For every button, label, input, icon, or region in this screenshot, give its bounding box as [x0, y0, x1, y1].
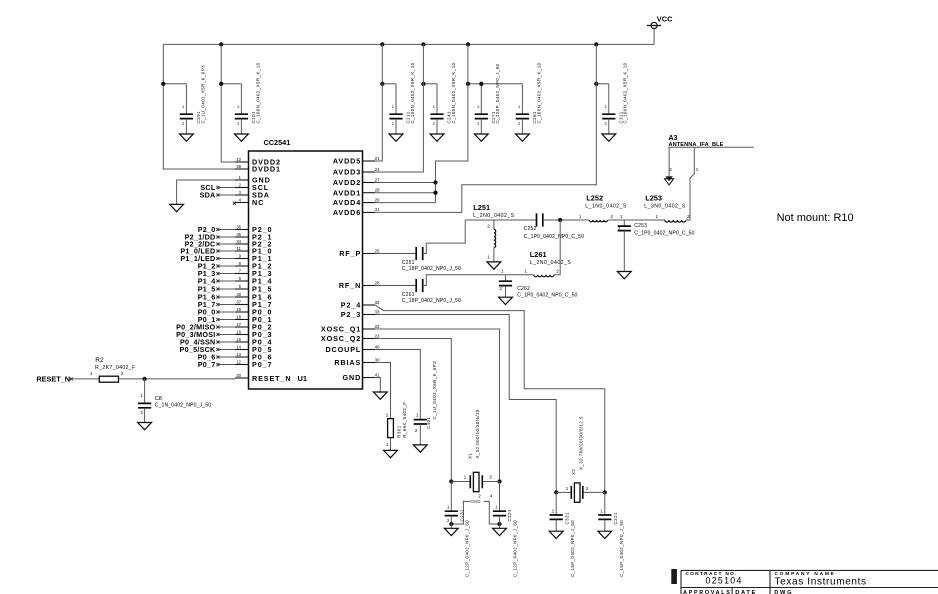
- svg-text:RF_N: RF_N: [339, 281, 361, 290]
- svg-text:P2_4: P2_4: [341, 301, 361, 310]
- wire AVDD3 to bus: [375, 44, 423, 172]
- ground C241: [430, 134, 444, 141]
- wire DVDD1 net: [163, 44, 235, 169]
- svg-text:AVDD5: AVDD5: [333, 157, 361, 166]
- wire: [144, 379, 146, 404]
- wire pin 4 stub: [235, 202, 249, 204]
- svg-text:C_1P0_0402_NP0_C_50: C_1P0_0402_NP0_C_50: [524, 234, 584, 240]
- svg-text:22: 22: [375, 324, 380, 329]
- junction C281 tap: [479, 82, 483, 86]
- svg-text:GND: GND: [471, 499, 481, 504]
- svg-text:25: 25: [375, 248, 380, 253]
- svg-text:29: 29: [375, 197, 380, 202]
- inductor L252: [589, 220, 607, 222]
- wire tap to C211: [382, 83, 396, 85]
- svg-text:CC2541: CC2541: [264, 138, 291, 147]
- wire: [480, 84, 482, 114]
- wire AVDD6 to bus: [375, 44, 596, 212]
- wire: [499, 482, 501, 512]
- svg-text:C_12P_0402_NP0_J_50: C_12P_0402_NP0_J_50: [464, 520, 469, 577]
- wire pin 34 stub: [235, 243, 249, 245]
- wire DVDD2 net: [221, 44, 235, 162]
- wire: [480, 119, 482, 134]
- svg-text:Texas Instruments: Texas Instruments: [775, 576, 867, 587]
- junction C271 tap: [466, 82, 470, 86]
- svg-text:NC: NC: [252, 198, 264, 207]
- junction bus/C311 drop: [594, 42, 598, 46]
- wire pin 18 stub: [235, 319, 249, 321]
- junction C8 tap: [142, 377, 146, 381]
- wire: [395, 84, 397, 114]
- inductor L253: [665, 220, 686, 222]
- wire: [521, 84, 523, 114]
- svg-text:C_1P0_0402_NP0_C_50: C_1P0_0402_NP0_C_50: [634, 230, 694, 236]
- svg-text:C331: C331: [564, 512, 569, 525]
- wire L261 up to mid node: [554, 220, 560, 275]
- junction bus/C101 drop: [219, 42, 223, 46]
- ground C391: [180, 134, 194, 141]
- wire pin 20 stub: [235, 377, 249, 379]
- svg-text:DCOUPL: DCOUPL: [325, 345, 361, 354]
- svg-text:L_2N0_0402_S: L_2N0_0402_S: [530, 260, 572, 266]
- ground chip pin41: [373, 392, 387, 399]
- inductor L261: [534, 275, 554, 277]
- svg-text:C251: C251: [402, 260, 415, 266]
- svg-text:C261: C261: [402, 292, 415, 298]
- wire tap to C101: [221, 83, 241, 85]
- wire pin 40 stub: [363, 349, 376, 351]
- svg-text:L_2N0_0402_S: L_2N0_0402_S: [473, 213, 515, 219]
- svg-text:31: 31: [375, 207, 380, 212]
- wire pin 7 stub: [235, 273, 249, 275]
- wire: [493, 248, 495, 262]
- svg-text:11: 11: [237, 246, 242, 251]
- junction C241 tap: [421, 82, 425, 86]
- wire pin 28 stub: [363, 192, 376, 194]
- junction X2 pin1 node: [554, 490, 558, 494]
- wire pin 33 stub: [363, 314, 376, 316]
- svg-text:C221: C221: [507, 509, 512, 522]
- wire pin 12 stub: [235, 364, 249, 366]
- svg-text:VCC: VCC: [657, 15, 673, 24]
- ground chip pin1: [170, 204, 184, 211]
- svg-text:L_3N0_0402_S: L_3N0_0402_S: [644, 204, 686, 210]
- ground L251: [487, 262, 501, 269]
- svg-text:DVDD1: DVDD1: [252, 165, 281, 174]
- wire: [395, 119, 397, 134]
- wire AVDD2/1/4 to bus: [436, 44, 468, 202]
- ground C101: [235, 134, 249, 141]
- svg-text:24: 24: [375, 167, 380, 172]
- svg-text:C_1U_0402_X5R_K_6P3: C_1U_0402_X5R_K_6P3: [200, 65, 205, 124]
- capacitor C211: [389, 114, 402, 118]
- wire: [450, 482, 452, 512]
- svg-text:RBIAS: RBIAS: [334, 358, 361, 367]
- svg-text:23: 23: [375, 333, 380, 338]
- wire C261 to L261: [423, 275, 534, 286]
- svg-text:X2: X2: [571, 469, 576, 475]
- wire VCC top bus: [163, 43, 654, 45]
- wire: [436, 84, 438, 114]
- wire: [604, 519, 606, 531]
- wire pin 19 stub: [235, 311, 249, 313]
- svg-text:R2: R2: [95, 357, 104, 364]
- wire XOSC_Q2 to X1: [375, 339, 451, 482]
- svg-text:A3: A3: [669, 135, 678, 142]
- wire: [493, 220, 495, 229]
- wire GND41: [375, 378, 380, 393]
- svg-text:C_100N_0402_X5R_K_10: C_100N_0402_X5R_K_10: [451, 62, 456, 123]
- svg-text:GND: GND: [343, 373, 362, 382]
- wire pin 2 stub: [235, 187, 249, 189]
- wire AVDD5 to bus: [375, 44, 382, 161]
- svg-text:C_18P_0402_NP0_J_50: C_18P_0402_NP0_J_50: [402, 266, 461, 272]
- svg-text:C_100N_0402_X5R_K_10: C_100N_0402_X5R_K_10: [410, 62, 415, 123]
- wire pin 17 stub: [235, 326, 249, 328]
- wire: [390, 438, 392, 451]
- svg-text:12: 12: [236, 359, 241, 364]
- wire pin 3 stub: [235, 194, 249, 196]
- svg-text:C8: C8: [155, 396, 162, 402]
- junction C221 gnd: [497, 522, 501, 526]
- ground C401: [413, 445, 427, 452]
- capacitor C401: [414, 420, 427, 424]
- wire balun rail: [465, 219, 536, 221]
- svg-text:XOSC_Q1: XOSC_Q1: [321, 325, 361, 334]
- svg-text:C_15P_0402_NP0_J_50: C_15P_0402_NP0_J_50: [570, 520, 575, 577]
- wire X2 leads: [556, 491, 605, 493]
- wire: [555, 492, 557, 515]
- wire: [623, 220, 625, 226]
- ground C253: [617, 272, 631, 279]
- wire tap to C391: [163, 83, 186, 85]
- svg-text:27: 27: [375, 177, 380, 182]
- ground C262: [499, 297, 513, 304]
- svg-text:C_15P_0402_NP0_J_50: C_15P_0402_NP0_J_50: [619, 520, 624, 577]
- wire RF_P to C251: [375, 253, 416, 255]
- svg-text:Not mount: R10: Not mount: R10: [777, 212, 854, 224]
- svg-text:L_1N0_0402_S: L_1N0_0402_S: [585, 204, 627, 210]
- svg-text:L261: L261: [530, 250, 547, 259]
- wire pin 8 stub: [235, 265, 249, 267]
- capacitor C241: [430, 114, 443, 118]
- svg-text:33: 33: [375, 309, 380, 314]
- svg-text:17: 17: [236, 322, 241, 327]
- wire tap to C241: [423, 83, 437, 85]
- wire tap to C311: [596, 83, 609, 85]
- wire: [604, 492, 606, 515]
- wire GND pin1: [177, 180, 235, 204]
- wire P2_3 to X2: [375, 315, 556, 493]
- ground antenna (arrow style): [666, 177, 672, 181]
- wire XOSC_Q1 to X1: [375, 329, 499, 482]
- wire pin 36 stub: [235, 229, 249, 231]
- svg-text:L253: L253: [645, 193, 662, 202]
- power symbol VCC: [651, 22, 657, 28]
- wire pin 16 stub: [235, 334, 249, 336]
- junction C391 tap: [161, 82, 165, 86]
- wire pin 31 stub: [363, 211, 376, 213]
- wire pin 14 stub: [235, 349, 249, 351]
- wire pin 24 stub: [363, 171, 376, 173]
- svg-text:28: 28: [375, 188, 380, 193]
- wire: [419, 424, 421, 445]
- wire pin 1 stub: [235, 179, 249, 181]
- svg-text:RESET_N: RESET_N: [36, 375, 70, 384]
- svg-text:16: 16: [236, 329, 241, 334]
- capacitor C251: [416, 247, 423, 260]
- wire: [499, 516, 501, 529]
- svg-text:AVDD4: AVDD4: [333, 198, 361, 207]
- svg-text:C_100N_0402_X5R_K_10: C_100N_0402_X5R_K_10: [255, 62, 260, 123]
- svg-text:R_56K_0402_F: R_56K_0402_F: [402, 402, 407, 438]
- resistor R301: [388, 419, 394, 438]
- svg-text:C231: C231: [460, 509, 465, 522]
- svg-text:14: 14: [236, 344, 241, 349]
- wire: [436, 119, 438, 134]
- svg-text:AVDD2: AVDD2: [333, 178, 361, 187]
- wire pin 5 stub: [235, 288, 249, 290]
- svg-text:C_18P_0402_NP0_J_50: C_18P_0402_NP0_J_50: [402, 298, 461, 304]
- svg-text:C_12P_0402_NP0_J_50: C_12P_0402_NP0_J_50: [513, 520, 518, 577]
- svg-text:C_220P_0402_NP0_J_50: C_220P_0402_NP0_J_50: [495, 63, 500, 123]
- wire tap to C281: [481, 83, 522, 85]
- wire: [240, 84, 242, 114]
- wire pin 30 stub: [363, 362, 376, 364]
- junction C231 gnd: [449, 522, 453, 526]
- wire pin 6 stub: [235, 280, 249, 282]
- wire pin 9 stub: [235, 258, 249, 260]
- svg-text:C_1U_0402_X5R_K_6P3: C_1U_0402_X5R_K_6P3: [432, 361, 437, 420]
- wire RESET_N to R2: [71, 378, 99, 380]
- wire P2_4 to X2: [375, 305, 605, 492]
- wire: [450, 516, 452, 529]
- wire: [144, 408, 146, 423]
- svg-text:C_1N_0402_NP0_J_50: C_1N_0402_NP0_J_50: [155, 403, 212, 409]
- capacitor C252: [537, 213, 543, 226]
- svg-text:41: 41: [375, 372, 380, 377]
- svg-text:P0_7: P0_7: [198, 360, 216, 369]
- svg-text:L252: L252: [586, 193, 603, 202]
- svg-text:U1: U1: [298, 374, 308, 383]
- wire pin 29 stub: [363, 202, 376, 204]
- svg-text:35: 35: [236, 232, 241, 237]
- svg-text:C262: C262: [517, 286, 530, 292]
- wire: [608, 219, 665, 221]
- wire pin 10 stub: [235, 161, 249, 163]
- svg-text:13: 13: [236, 352, 241, 357]
- ground C8: [138, 423, 152, 430]
- svg-text:X1: X1: [468, 453, 473, 459]
- wire L253 to antenna pin1: [686, 147, 694, 220]
- svg-text:SDA: SDA: [200, 191, 216, 200]
- wire VCC riser: [653, 29, 655, 45]
- svg-text:26: 26: [375, 280, 380, 285]
- svg-text:C_1P0_0402_NP0_C_50: C_1P0_0402_NP0_C_50: [517, 293, 577, 299]
- wire pin 25 stub: [363, 253, 376, 255]
- ground C311: [602, 134, 616, 141]
- wire X1 leads: [451, 481, 499, 483]
- wire: [555, 519, 557, 531]
- svg-text:P0_7: P0_7: [252, 360, 272, 369]
- junction X2 pin2 node: [603, 490, 607, 494]
- wire X1 gnd bracket: [451, 501, 499, 524]
- svg-text:36: 36: [236, 224, 241, 229]
- junction AVDD1: [433, 191, 437, 195]
- svg-text:P2_3: P2_3: [341, 310, 361, 319]
- capacitor C271: [475, 114, 488, 118]
- wire: [240, 119, 242, 134]
- ground C321: [598, 531, 612, 538]
- ground C331: [549, 531, 563, 538]
- svg-text:DWG: DWG: [774, 590, 793, 594]
- wire RF_N to C261: [375, 285, 416, 287]
- capacitor C261: [416, 279, 423, 292]
- svg-text:DATE: DATE: [735, 590, 757, 594]
- svg-text:10: 10: [236, 157, 241, 162]
- ground C271: [474, 134, 488, 141]
- junction C311 tap: [594, 82, 598, 86]
- title block: [671, 569, 677, 584]
- ground C211: [389, 134, 403, 141]
- wire: [505, 275, 507, 282]
- svg-text:RF_P: RF_P: [339, 249, 361, 258]
- capacitor C311: [602, 114, 615, 118]
- wire AVDD1: [375, 192, 435, 194]
- svg-text:40: 40: [375, 344, 380, 349]
- svg-text:21: 21: [375, 156, 380, 161]
- svg-text:30: 30: [375, 357, 380, 362]
- junction C211 tap: [380, 82, 384, 86]
- wire AVDD2: [375, 182, 435, 184]
- wire pin 22 stub: [363, 328, 376, 330]
- ground C281: [516, 134, 530, 141]
- svg-text:APPROVALS: APPROVALS: [683, 590, 731, 594]
- wire pin 27 stub: [363, 182, 376, 184]
- wire: [543, 219, 590, 221]
- svg-text:C_100N_0402_X5R_K_10: C_100N_0402_X5R_K_10: [623, 62, 628, 123]
- wire pin 15 stub: [235, 341, 249, 343]
- svg-text:AVDD6: AVDD6: [333, 208, 361, 217]
- junction bus/AVDD5 drop: [380, 42, 384, 46]
- svg-text:C_100N_0402_X5R_K_10: C_100N_0402_X5R_K_10: [536, 62, 541, 123]
- capacitor C391: [180, 114, 193, 118]
- wire pin 35 stub: [235, 236, 249, 238]
- svg-text:19: 19: [236, 307, 241, 312]
- wire: [623, 231, 625, 272]
- svg-text:X_32.000/10/30/6/10: X_32.000/10/30/6/10: [475, 409, 480, 458]
- svg-text:C253: C253: [634, 223, 647, 229]
- wire DCOUPL to C401: [375, 350, 420, 420]
- svg-text:L251: L251: [473, 203, 490, 212]
- wire pin 37 stub: [235, 304, 249, 306]
- wire pin 13 stub: [235, 356, 249, 358]
- wire pin 41 stub: [363, 377, 376, 379]
- wire C251 to balun rail: [423, 220, 466, 254]
- wire pin 11 stub: [235, 250, 249, 252]
- wire pin 26 stub: [363, 285, 376, 287]
- wire pin 32 stub: [363, 304, 376, 306]
- svg-text:C321: C321: [613, 512, 618, 525]
- svg-text:20: 20: [236, 373, 241, 378]
- svg-text:AVDD1: AVDD1: [333, 188, 361, 197]
- wire R2 to RESET_N pin: [119, 378, 235, 380]
- svg-text:37: 37: [236, 299, 241, 304]
- junction AVDD2: [433, 180, 437, 184]
- svg-text:C252: C252: [524, 226, 537, 232]
- svg-text:18: 18: [236, 314, 241, 319]
- ground R301: [384, 450, 398, 457]
- capacitor C101: [235, 114, 248, 118]
- wire antenna pin2: [668, 147, 670, 176]
- svg-text:025104: 025104: [706, 576, 743, 586]
- wire tap to C271: [468, 83, 481, 85]
- wire pin 38 stub: [235, 296, 249, 298]
- svg-text:XOSC_Q2: XOSC_Q2: [321, 334, 361, 343]
- op-amp U1 CC2541 IC body: [249, 151, 363, 389]
- svg-text:X_32.768/20/30/6/12.5: X_32.768/20/30/6/12.5: [579, 416, 584, 470]
- wire pin 39 stub: [235, 168, 249, 170]
- junction bus/AVDD2 drop: [466, 42, 470, 46]
- svg-text:39: 39: [236, 164, 241, 169]
- wire RBIAS to R301: [375, 363, 390, 419]
- wire: [608, 84, 610, 114]
- junction bus/AVDD3 drop: [421, 42, 425, 46]
- wire pin 21 stub: [363, 160, 376, 162]
- svg-text:AVDD3: AVDD3: [333, 168, 361, 177]
- junction balun mid node: [558, 218, 562, 222]
- wire antenna feed: [669, 146, 754, 148]
- junction X1 pin1 node: [449, 479, 453, 483]
- svg-text:C401: C401: [426, 416, 431, 429]
- wire AVDD4: [375, 202, 435, 204]
- no-connect mark NC: [233, 202, 236, 205]
- svg-text:32: 32: [375, 300, 380, 305]
- wire: [185, 119, 187, 134]
- wire: [185, 84, 187, 114]
- junction C101 tap: [219, 82, 223, 86]
- wire: [608, 119, 610, 134]
- svg-text:RESET_N: RESET_N: [252, 374, 291, 383]
- ground C221: [493, 528, 507, 535]
- ground C231: [444, 528, 458, 535]
- wire: [505, 286, 507, 298]
- svg-text:15: 15: [236, 337, 241, 342]
- wire: [521, 119, 523, 134]
- svg-text:34: 34: [236, 239, 241, 244]
- svg-text:38: 38: [236, 292, 241, 297]
- junction X1 pin3 node: [497, 479, 501, 483]
- wire pin 23 stub: [363, 338, 376, 340]
- resistor R2: [99, 376, 118, 382]
- svg-text:R_2K7_0402_F: R_2K7_0402_F: [95, 365, 136, 371]
- capacitor C281: [516, 114, 529, 118]
